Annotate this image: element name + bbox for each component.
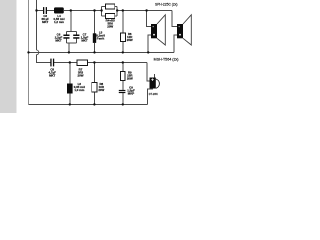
svg-text:1,0 mm: 1,0 mm — [74, 88, 84, 92]
svg-text:20W: 20W — [98, 88, 104, 92]
svg-text:20W: 20W — [127, 38, 133, 42]
svg-text:MKT: MKT — [42, 20, 48, 24]
svg-text:20W: 20W — [127, 77, 133, 81]
svg-text:Ferrit: Ferrit — [97, 37, 104, 41]
svg-text:20W: 20W — [107, 25, 113, 29]
svg-text:20W: 20W — [78, 74, 84, 78]
svg-text:MKT: MKT — [55, 38, 61, 42]
svg-text:MKT: MKT — [81, 38, 87, 42]
svg-text:MSH-T564 (2x): MSH-T564 (2x) — [154, 57, 179, 61]
svg-text:MKP: MKP — [128, 92, 134, 96]
svg-text:1,2 mm: 1,2 mm — [54, 20, 64, 24]
svg-text:SPH-225C (2x): SPH-225C (2x) — [155, 3, 178, 7]
svg-text:MKT: MKT — [49, 73, 55, 77]
svg-text:DT-28N: DT-28N — [149, 92, 158, 96]
